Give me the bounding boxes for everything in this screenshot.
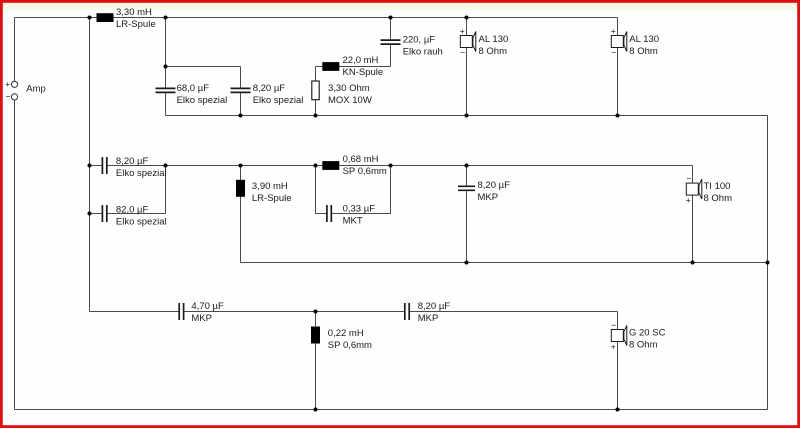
inductor 3,90 mH LR-Spule body — [236, 180, 245, 197]
capacitor 0,33 uF MKT plates — [326, 205, 328, 222]
resistor 3,30 Ohm MOX 10W — [312, 81, 319, 100]
wire section1 lower rail — [166, 115, 768, 117]
wire 8,20uF MKP branch drop — [466, 166, 468, 187]
wire mid-low rail — [241, 262, 768, 264]
wire 82uF parallel row — [90, 213, 103, 215]
svg-text:SP 0,6mm: SP 0,6mm — [328, 340, 372, 351]
wire resistor branch — [315, 67, 317, 116]
svg-text:8 Ohm: 8 Ohm — [479, 46, 508, 57]
capacitor 8,20 uF Elko spezial section1 plates — [231, 87, 251, 89]
svg-text:82,0 µF: 82,0 µF — [116, 204, 149, 215]
svg-text:MKT: MKT — [343, 215, 363, 226]
svg-text:LR-Spule: LR-Spule — [252, 193, 292, 204]
inductor 0,22 mH SP 0,6mm body — [311, 327, 320, 344]
wire AL130 no1 drop — [466, 18, 468, 116]
svg-text:AL 130: AL 130 — [479, 34, 509, 45]
svg-text:+: + — [611, 341, 616, 351]
wire TI100 drop — [692, 166, 694, 263]
svg-text:Amp: Amp — [26, 83, 46, 94]
svg-text:68,0 µF: 68,0 µF — [177, 83, 210, 94]
svg-text:LR-Spule: LR-Spule — [116, 19, 156, 30]
svg-text:4,70 µF: 4,70 µF — [191, 301, 224, 312]
wire midrange row — [90, 165, 103, 167]
wire 8,2uF spezial drop — [240, 67, 242, 89]
inductor 22,0 mH KN-Spule body — [322, 62, 339, 71]
svg-text:8,20 µF: 8,20 µF — [418, 301, 451, 312]
svg-text:8 Ohm: 8 Ohm — [629, 46, 658, 57]
capacitor 8,20 uF Elko spezial midrange plates — [101, 157, 103, 174]
wire row between 68uF and 8,2uF — [166, 66, 241, 68]
svg-text:Elko spezial: Elko spezial — [177, 95, 228, 106]
svg-text:8,20 µF: 8,20 µF — [253, 83, 286, 94]
junction dot 68uF top — [164, 65, 168, 69]
wire amp plus to top rail — [14, 18, 16, 82]
svg-text:KN-Spule: KN-Spule — [343, 67, 384, 78]
jpeg tint band below top border — [3, 3, 797, 10]
capacitor 82,0 uF Elko spezial plates — [101, 205, 103, 222]
capacitor 220 uF Elko rauh plates — [381, 39, 401, 41]
svg-text:G 20 SC: G 20 SC — [629, 327, 666, 338]
svg-text:+: + — [5, 79, 10, 89]
svg-text:SP 0,6mm: SP 0,6mm — [343, 166, 387, 177]
svg-text:0,22 mH: 0,22 mH — [328, 328, 364, 339]
speaker AL 130 no2 — [611, 32, 627, 52]
svg-text:−: − — [611, 47, 616, 57]
svg-text:22,0 mH: 22,0 mH — [343, 55, 379, 66]
wire AL130 no2 drop — [617, 18, 619, 116]
wire 68uF drop — [165, 67, 167, 89]
speaker G 20 SC — [611, 326, 627, 346]
junction dots bottom rail — [314, 408, 318, 412]
svg-text:0,33 µF: 0,33 µF — [343, 203, 376, 214]
capacitor 4,70 uF MKP plates — [178, 303, 180, 320]
svg-text:TI 100: TI 100 — [704, 181, 731, 192]
svg-text:8 Ohm: 8 Ohm — [704, 193, 733, 204]
svg-text:MOX 10W: MOX 10W — [328, 95, 372, 106]
junction dot woofer row — [314, 310, 318, 314]
speaker TI 100 — [686, 179, 702, 199]
svg-text:−: − — [6, 91, 11, 101]
inductor 3,30 mH LR-Spule body — [97, 13, 114, 22]
svg-text:220, µF: 220, µF — [403, 34, 436, 45]
svg-text:+: + — [686, 195, 691, 205]
wire G20SC drop — [617, 312, 619, 410]
svg-text:3,30 mH: 3,30 mH — [116, 7, 152, 18]
svg-text:+: + — [611, 26, 616, 36]
wire woofer row — [90, 311, 179, 313]
wire top rail — [15, 17, 618, 19]
svg-text:Elko spezial: Elko spezial — [253, 95, 304, 106]
svg-text:AL 130: AL 130 — [629, 34, 659, 45]
amp terminal minus — [11, 94, 17, 100]
svg-text:MKP: MKP — [478, 192, 499, 203]
speaker AL 130 no1 — [460, 32, 476, 52]
amp terminal plus — [11, 81, 17, 87]
wire 3,90mH drop — [240, 166, 242, 263]
svg-text:MKP: MKP — [191, 313, 212, 324]
svg-text:Elko rauh: Elko rauh — [403, 46, 443, 57]
wire amp minus to bottom rail — [14, 100, 16, 409]
capacitor 68,0 uF Elko spezial plates — [156, 87, 176, 89]
svg-text:3,30 Ohm: 3,30 Ohm — [328, 83, 370, 94]
wire left branch vertical — [89, 18, 91, 312]
junction dots section1 lower rail — [239, 114, 243, 118]
junction dot 82uF row — [88, 212, 92, 216]
capacitor 8,20 uF MKP woofer plates — [404, 303, 406, 320]
svg-text:−: − — [686, 173, 691, 183]
wire 0,33uF loop — [316, 166, 327, 214]
inductor 0,68 mH SP 0,6mm body — [322, 161, 339, 170]
svg-text:3,90 mH: 3,90 mH — [252, 181, 288, 192]
svg-text:8,20 µF: 8,20 µF — [116, 156, 149, 167]
svg-text:MKP: MKP — [418, 313, 439, 324]
svg-text:+: + — [460, 26, 465, 36]
svg-text:8,20 µF: 8,20 µF — [478, 180, 511, 191]
capacitor 8,20 uF MKP midrange plates — [458, 185, 475, 187]
junction dots midrange row — [88, 164, 92, 168]
svg-text:Elko spezial: Elko spezial — [116, 168, 167, 179]
wire bottom rail — [15, 409, 768, 411]
wire right vertical — [767, 116, 769, 410]
svg-text:−: − — [611, 320, 616, 330]
wire 220uF vertical — [390, 18, 392, 41]
wire x=165 top vertical — [165, 18, 167, 67]
svg-text:Elko spezial: Elko spezial — [116, 216, 167, 227]
wire 0,22mH drop — [315, 312, 317, 410]
svg-text:0,68 mH: 0,68 mH — [343, 154, 379, 165]
svg-text:8 Ohm: 8 Ohm — [629, 339, 658, 350]
junction dots mid-low rail — [465, 261, 469, 265]
wire KN-Spule row — [316, 66, 391, 68]
junction dots top rail — [88, 16, 92, 20]
svg-text:−: − — [460, 47, 465, 57]
